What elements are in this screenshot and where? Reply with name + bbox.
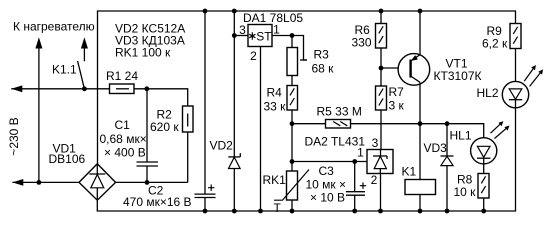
node C2 top bus: [203, 9, 208, 14]
svg-text:× 400 В: × 400 В: [104, 146, 146, 160]
svg-text:68 к: 68 к: [312, 62, 335, 76]
node R4/R5 junction: [290, 121, 295, 126]
wire DA1 pin2 x=260.5: [260, 47, 262, 212]
wire bridge right vertex to R2 bottom: [116, 181, 188, 183]
wire R7 bottom to DA2 pin3 (crosses y=123.7, no junction): [380, 110, 382, 150]
node R8 bottom bus: [481, 209, 486, 214]
wire base to VT1: [381, 67, 410, 69]
wire heater terminal B (K1.1 fixed contact) x=84.4: [83, 47, 85, 61]
node K1.1 pivot: [82, 86, 87, 91]
svg-text:2: 2: [371, 173, 378, 187]
svg-text:10 к: 10 к: [454, 185, 477, 199]
wire DA1 pin3: [234, 35, 248, 37]
arrowhead heater A: [35, 37, 42, 48]
wire mains line2 y=182.4: [12, 181, 79, 183]
svg-text:R4: R4: [267, 86, 283, 100]
wire +V rail to C2 x=205: [204, 11, 206, 194]
svg-text:× 10 В: × 10 В: [310, 191, 345, 205]
node K1 bottom bus: [418, 209, 423, 214]
regulator DA1 78L05: [248, 25, 272, 47]
wire DA2 ref y=161.5: [292, 161, 367, 163]
node VD3 bottom bus: [445, 209, 450, 214]
svg-text:КТ3107К: КТ3107К: [434, 69, 482, 83]
svg-text:1: 1: [273, 23, 280, 37]
node R1/C1/R2 junction: [144, 86, 149, 91]
thermistor RK1: [287, 171, 298, 200]
wire DA1 pin1: [272, 35, 292, 37]
node C1 bottom: [145, 180, 150, 185]
svg-text:R7: R7: [389, 85, 405, 99]
node DA1 pin2 bus: [258, 209, 263, 214]
diode VD3: [446, 124, 448, 156]
capacitor C2: [195, 193, 216, 195]
wire bottom bus 0V y=211: [97, 108, 515, 211]
wire R9 to HL2: [515, 49, 517, 82]
svg-text:330: 330: [352, 36, 372, 50]
svg-text:R3: R3: [314, 48, 330, 62]
svg-text:C1: C1: [115, 118, 131, 132]
node VT1 collector / K1 junction: [418, 121, 423, 126]
svg-text:K1.1: K1.1: [52, 63, 77, 77]
DA1 star mark: [249, 32, 255, 39]
node RK1 bottom bus: [290, 209, 295, 214]
svg-text:3: 3: [372, 136, 379, 150]
svg-text:33 к: 33 к: [264, 100, 287, 114]
bridge rectifier VD1: [79, 164, 116, 200]
C2 plus sign: [208, 185, 214, 191]
node heater A / wire2 junction: [37, 180, 42, 185]
resistor R9: [510, 24, 521, 49]
wire top bus +V y=11: [98, 11, 516, 164]
svg-text:470 мк×16 В: 470 мк×16 В: [123, 195, 192, 209]
wire hysteresis y=123.7 left: [292, 123, 326, 125]
svg-text:VD3: VD3: [424, 141, 448, 155]
wire R4 bottom to RK1: [291, 110, 293, 171]
svg-text:3: 3: [239, 23, 246, 37]
node C3 bottom bus: [352, 209, 357, 214]
R2 0.5W mark: [187, 114, 189, 127]
node DA1 pin3 junction: [232, 33, 237, 38]
svg-text:6,2 к: 6,2 к: [482, 37, 508, 51]
HL2 emission arrows: [524, 67, 534, 81]
LED HL1: [471, 138, 497, 164]
node C2 bottom bus: [203, 209, 208, 214]
svg-text:К нагревателю: К нагревателю: [13, 20, 95, 34]
wire zener branch x=234.3: [233, 11, 235, 157]
svg-text:RK1: RK1: [263, 173, 287, 187]
wire R6 bottom / node base junction: [380, 48, 382, 86]
wire HL1 to R8: [483, 164, 485, 174]
contact K1.1 blade: [78, 61, 85, 89]
shunt regulator DA2 TL431: [367, 150, 393, 174]
svg-text:RK1 100 к: RK1 100 к: [115, 46, 171, 60]
svg-text:0,68 мк×: 0,68 мк×: [100, 132, 147, 146]
HL1 emission arrows: [491, 123, 502, 134]
node R3 top junction: [290, 33, 295, 38]
svg-text:1: 1: [357, 146, 364, 160]
resistor R5: [326, 120, 351, 129]
wire DA2 pin2 to bus: [380, 174, 382, 212]
R1 0.5W mark: [116, 88, 129, 90]
svg-text:VD2: VD2: [210, 139, 234, 153]
relay coil K1: [419, 124, 421, 180]
node VD2 bottom bus: [232, 209, 237, 214]
resistor R8: [478, 174, 489, 199]
svg-text:~230 В: ~230 В: [7, 117, 21, 155]
resistor R3 (trimmer body): [291, 36, 293, 48]
svg-text:DB106: DB106: [49, 152, 86, 166]
svg-text:ST: ST: [256, 30, 272, 44]
svg-text:620 к: 620 к: [150, 120, 179, 134]
svg-text:R1 24: R1 24: [106, 69, 138, 83]
resistor R7: [376, 86, 387, 110]
node VT1 emitter bus: [418, 9, 423, 14]
wire heater terminal A x=38.9: [38, 47, 40, 182]
svg-text:R5 33 М: R5 33 М: [317, 105, 362, 119]
resistor R6: [380, 11, 382, 24]
svg-text:10 мк ×: 10 мк ×: [306, 178, 347, 192]
capacitor C1: [146, 89, 148, 162]
svg-text:K1: K1: [402, 165, 417, 179]
zener VD2: [228, 156, 240, 158]
wire R3 to R4: [291, 76, 293, 86]
node C3 top: [352, 159, 357, 164]
svg-text:Т: Т: [274, 201, 282, 215]
svg-text:C3: C3: [319, 164, 335, 178]
resistor R1: [110, 84, 135, 94]
arrowhead mains line1: [11, 85, 22, 92]
wire y=123.7 right: [351, 124, 484, 138]
transistor VT1: [398, 54, 430, 86]
svg-text:3 к: 3 к: [389, 99, 405, 113]
C3 plus sign: [360, 183, 366, 189]
svg-text:HL2: HL2: [477, 86, 499, 100]
trimmer R3 tap: [292, 36, 307, 61]
resistor R4: [287, 86, 298, 111]
node RK1/ref junction: [290, 159, 295, 164]
capacitor C3: [354, 162, 356, 192]
wire R2 bottom: [187, 132, 189, 182]
wire R1 right to R2: [134, 89, 188, 106]
node DA2 pin2 bus: [378, 209, 383, 214]
node top bus VD2: [232, 9, 237, 14]
svg-text:2: 2: [250, 49, 257, 63]
arrowhead heater B: [81, 37, 88, 48]
node VD3 top junction: [445, 121, 450, 126]
resistor R2: [183, 106, 194, 132]
svg-text:HL1: HL1: [450, 129, 472, 143]
arrowhead mains line2: [12, 179, 23, 186]
wire mains line1 y=88.8: [11, 88, 109, 90]
LED HL2: [502, 81, 528, 107]
